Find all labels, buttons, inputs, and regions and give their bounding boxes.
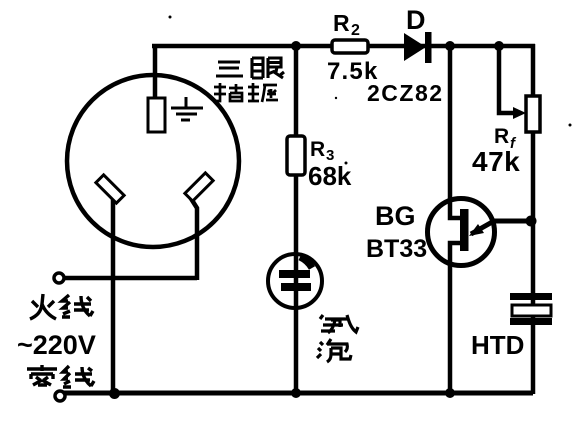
svg-text:D: D: [406, 5, 426, 35]
wire transistor B2 lead: [450, 46, 463, 218]
svg-text:68k: 68k: [308, 161, 352, 191]
label R3: [310, 138, 334, 164]
svg-text:BG: BG: [375, 201, 416, 231]
svg-text:2CZ82: 2CZ82: [367, 80, 444, 106]
label neon bulb (hanzi nai pao): [317, 315, 358, 362]
wire top horizontal bus: [152, 44, 535, 49]
svg-text:R: R: [494, 125, 509, 148]
label three-eye socket (hanzi san yan): [216, 58, 284, 78]
neon bulb envelope thick arc: [300, 257, 312, 268]
svg-text:47k: 47k: [472, 146, 520, 177]
label live wire (hanzi huo xian): [30, 294, 93, 319]
speck: [345, 162, 348, 165]
wire emitter lead: [471, 221, 531, 234]
label socket (hanzi cha zuo): [214, 83, 278, 102]
speck: [335, 97, 337, 99]
junction dot pot branch node: [494, 41, 504, 51]
label neutral wire (hanzi ling xian): [27, 365, 94, 387]
socket earth slot: [148, 98, 165, 132]
svg-text:BT33: BT33: [366, 235, 427, 263]
resistor R2 body: [332, 40, 368, 53]
ground symbol: [171, 97, 203, 120]
junction dot B1 bottom node: [445, 388, 455, 398]
junction dot diode cathode node: [445, 41, 455, 51]
resistor R3 body: [287, 136, 305, 175]
socket outline circle: [67, 75, 239, 247]
junction dot neon bottom node: [291, 388, 301, 398]
terminal neutral: [55, 391, 65, 401]
diode D: [404, 32, 432, 63]
svg-text:~220V: ~220V: [17, 330, 96, 360]
label Rf: [494, 125, 517, 152]
svg-text:2: 2: [351, 22, 360, 39]
transistor U1 BT33: [428, 199, 495, 266]
wire live lead horizontal: [64, 276, 197, 281]
svg-text:R: R: [310, 138, 325, 161]
wire bottom horizontal bus: [64, 391, 533, 396]
wire pot wiper branch: [499, 44, 519, 113]
junction dot emitter node: [526, 216, 537, 227]
wire live lead vertical to socket right slot: [190, 197, 197, 280]
wire transistor B1 lead: [450, 243, 463, 391]
terminal live: [54, 273, 64, 283]
buzzer HTD: [510, 293, 552, 325]
potentiometer Rf body: [526, 96, 540, 132]
wire socket top lead: [153, 44, 158, 100]
junction dot top of R3 branch: [291, 41, 301, 51]
wire right vertical bus: [531, 44, 536, 394]
socket left slot: [96, 175, 124, 203]
junction dot neutral node: [109, 388, 120, 399]
neon bulb: [268, 254, 322, 308]
svg-text:R: R: [333, 10, 350, 36]
label R2: [333, 10, 360, 39]
svg-text:HTD: HTD: [471, 330, 524, 360]
wire R3 branch vertical: [294, 46, 299, 393]
speck: [169, 16, 172, 19]
potentiometer wiper arrow: [513, 107, 526, 119]
speck: [569, 124, 572, 127]
socket right slot: [185, 173, 213, 201]
wire socket left slot lead: [111, 199, 116, 391]
